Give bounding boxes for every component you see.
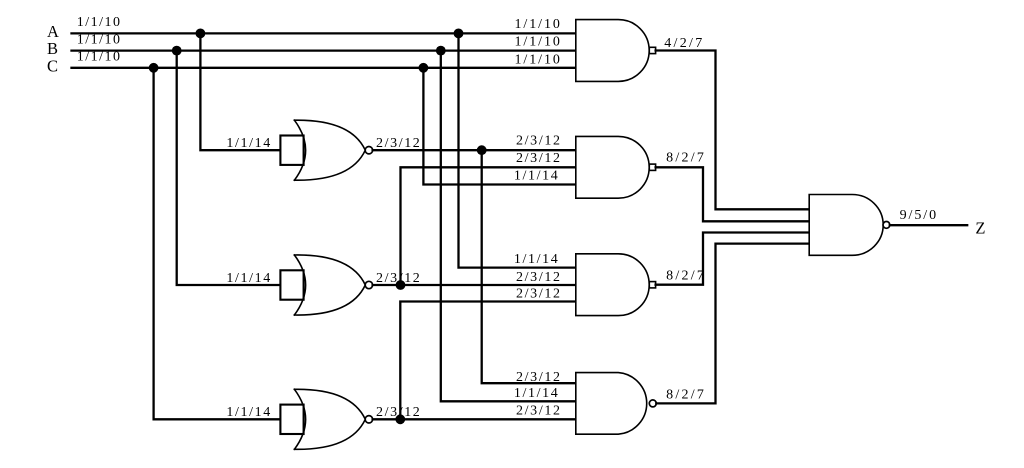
wire C to NAND U2 input 3 (423, 68, 575, 185)
wire G1 output branch to NAND U4 input 1 (482, 150, 576, 383)
wire C to NOR gate G3 input (154, 68, 281, 420)
NAND gate U4 (576, 373, 657, 435)
NAND gate U3 (576, 254, 656, 316)
junction dot C to G3 (149, 63, 159, 73)
NOR gate G3 inverter (280, 389, 372, 449)
junction dot B branch (436, 46, 446, 56)
wire U2 output to NAND U5 input 2 (656, 167, 810, 221)
junction dot B to G2 (172, 46, 182, 56)
svg-text:1/1/14: 1/1/14 (226, 405, 270, 420)
wire U3 output to NAND U5 input 3 (656, 233, 810, 285)
svg-text:C: C (47, 57, 58, 76)
junction dot G1 output branch (477, 145, 487, 155)
svg-text:Z: Z (975, 218, 985, 237)
wire B to NAND U4 input 2 (441, 51, 576, 402)
svg-text:2/3/12: 2/3/12 (516, 404, 560, 419)
svg-text:4/2/7: 4/2/7 (664, 36, 702, 51)
svg-text:8/2/7: 8/2/7 (666, 387, 704, 402)
wire G2 output branch to NAND U2 input 2 (401, 167, 576, 285)
svg-text:1/1/10: 1/1/10 (77, 33, 120, 48)
svg-text:1/1/14: 1/1/14 (514, 168, 558, 183)
wire G3 output branch to NAND U3 input 3 (400, 302, 576, 420)
wire net C horizontal bus (72, 67, 576, 69)
svg-text:1/1/14: 1/1/14 (514, 386, 558, 401)
svg-text:2/3/12: 2/3/12 (516, 134, 560, 149)
svg-text:8/2/7: 8/2/7 (666, 151, 704, 166)
svg-text:2/3/12: 2/3/12 (376, 136, 420, 151)
wire net A horizontal bus (72, 32, 576, 34)
svg-text:B: B (47, 39, 58, 58)
svg-text:2/3/12: 2/3/12 (516, 151, 560, 166)
junction dot G2 output branch (396, 280, 406, 290)
junction dot A branch (454, 29, 464, 39)
svg-text:1/1/14: 1/1/14 (226, 271, 270, 286)
svg-text:2/3/12: 2/3/12 (516, 270, 560, 285)
NOR gate G2 inverter (280, 255, 372, 315)
NAND gate U5 final 4-input (809, 195, 890, 256)
wire A to NAND U3 input 1 (459, 33, 576, 267)
svg-text:1/1/14: 1/1/14 (226, 136, 270, 151)
svg-text:1/1/10: 1/1/10 (77, 15, 120, 30)
NAND gate U2 (576, 136, 656, 198)
junction dot G3 output branch (395, 414, 405, 424)
node B input label (47, 39, 58, 58)
svg-text:9/5/0: 9/5/0 (900, 208, 937, 223)
svg-text:1/1/10: 1/1/10 (515, 35, 560, 50)
node C input label (47, 57, 58, 76)
svg-text:1/1/10: 1/1/10 (515, 52, 560, 67)
NAND gate U1 (576, 20, 656, 82)
wire B to NOR gate G2 input (177, 51, 281, 285)
svg-text:1/1/10: 1/1/10 (515, 17, 560, 32)
node Z output label (975, 218, 985, 237)
wire G2 output to NAND U3 input 2 (373, 284, 576, 286)
node A input label (47, 22, 59, 41)
wire U5 output to Z (890, 224, 967, 226)
wire G1 output to NAND U2 input 1 (373, 149, 576, 151)
wire A to NOR gate G1 input (200, 33, 280, 150)
svg-text:2/3/12: 2/3/12 (516, 370, 560, 385)
NOR gate G1 inverter (280, 120, 372, 180)
junction dot C branch (419, 63, 429, 73)
svg-text:A: A (47, 22, 59, 41)
wire net B horizontal bus (72, 49, 576, 51)
svg-text:1/1/14: 1/1/14 (514, 252, 558, 267)
svg-text:1/1/10: 1/1/10 (77, 50, 120, 65)
svg-text:2/3/12: 2/3/12 (516, 287, 560, 302)
junction dot A to G1 (196, 29, 206, 39)
wire G3 output to NAND U4 input 3 (373, 418, 576, 420)
wire U4 output to NAND U5 input 4 (656, 244, 809, 404)
svg-text:8/2/7: 8/2/7 (666, 268, 704, 283)
wire U1 output to NAND U5 input 1 (656, 51, 810, 210)
